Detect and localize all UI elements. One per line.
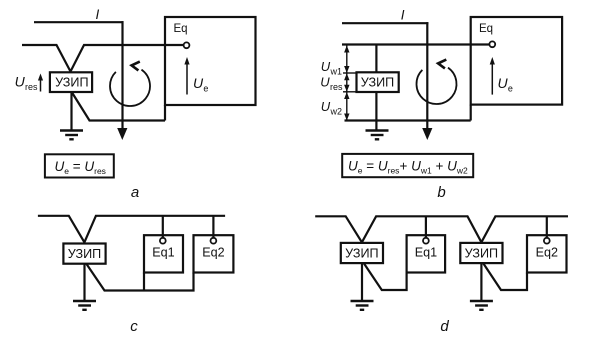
- equipment box Eq2 (c): [194, 235, 234, 272]
- wire: drop to Eq2 terminal (c): [212, 216, 214, 238]
- arrow: U_res voltage arrow (a): [40, 79, 42, 92]
- svg-text:U: U: [193, 75, 204, 91]
- wire: top line conductor (b): [342, 22, 428, 24]
- wire: Eq-box left edge extension to bottom wire (a): [164, 105, 166, 121]
- wire: diagonal bonding lead from SPD (c): [87, 264, 194, 291]
- svg-text:Eq1: Eq1: [415, 246, 437, 260]
- node: terminal circle Eq2 (d): [544, 238, 550, 244]
- formula box a: [45, 154, 114, 177]
- SPD box УЗИП (b): [357, 72, 399, 92]
- node: terminal circle Eq2 (c): [211, 238, 217, 244]
- svg-text:УЗИП: УЗИП: [68, 247, 101, 261]
- ground symbol 1 (d): [351, 301, 374, 310]
- svg-text:w2: w2: [330, 106, 343, 116]
- wire: diagonal bonding lead SPD2-Eq2 (d): [483, 264, 527, 291]
- svg-text:Eq2: Eq2: [536, 246, 558, 260]
- svg-text:Eq: Eq: [174, 23, 188, 35]
- wire: surge current down-conductor (a): [121, 21, 123, 129]
- equipment box Eq1 (c): [144, 235, 183, 272]
- svg-text:U: U: [321, 99, 331, 114]
- wire: drop to Eq1 terminal (d): [425, 216, 427, 238]
- svg-text:a: a: [131, 184, 139, 201]
- svg-text:U: U: [320, 75, 330, 90]
- node: terminal circle on Eq (a): [184, 42, 190, 48]
- equipment box Eq1 (d): [407, 235, 446, 272]
- wire: bottom bonding conductor (b): [345, 119, 471, 121]
- svg-text:c: c: [130, 318, 138, 335]
- svg-text:Eq: Eq: [479, 23, 493, 35]
- wire: drop to Eq1 terminal (c): [162, 216, 164, 238]
- wire: Eq1 left edge extension to bottom wire (c): [143, 273, 145, 291]
- wire: diagonal bonding lead SPD1-Eq1 (d): [364, 264, 407, 291]
- svg-text:УЗИП: УЗИП: [465, 247, 498, 261]
- formula box b: [342, 154, 473, 177]
- svg-text:I: I: [96, 7, 100, 22]
- arrowhead: surge current I direction (a): [117, 128, 127, 140]
- wire: Eq-box left edge extension (b): [470, 105, 472, 121]
- wire: SPD earth lead (c): [83, 264, 85, 301]
- wire: SPD earth lead (a): [70, 92, 72, 131]
- wire: line conductor with V kink (c): [38, 216, 225, 243]
- equipment box Eq (a): [165, 17, 256, 105]
- wire: diagonal bonding lead from SPD to bottom wire (a): [72, 93, 165, 121]
- node: terminal circle on Eq (b): [489, 41, 495, 47]
- svg-text:Eq2: Eq2: [202, 246, 224, 260]
- SPD box УЗИП (a): [50, 72, 92, 92]
- ground symbol 2 (d): [470, 301, 493, 310]
- svg-text:Ue = Ures+ Uw1 + Uw2: Ue = Ures+ Uw1 + Uw2: [348, 159, 468, 176]
- arrow: U_e voltage arrow (b): [491, 63, 493, 95]
- ground symbol (c): [73, 301, 96, 310]
- svg-text:УЗИП: УЗИП: [345, 247, 378, 261]
- svg-text:res: res: [25, 82, 38, 92]
- dimension line with arrows U_w1 / U_res / U_w2 (b): [343, 46, 357, 121]
- svg-text:w1: w1: [330, 66, 343, 76]
- wire: phase conductor (b): [342, 43, 489, 45]
- svg-text:e: e: [203, 84, 208, 94]
- wire: surge current down-conductor (b): [426, 22, 428, 129]
- wire: line conductor with two V kinks (d): [315, 216, 568, 242]
- wire: drop to Eq2 terminal (d): [546, 216, 548, 238]
- SPD box УЗИП 2 (d): [460, 243, 502, 263]
- svg-text:d: d: [440, 318, 449, 335]
- wire: SPD2 earth lead (d): [480, 264, 482, 302]
- svg-text:I: I: [401, 8, 405, 23]
- wire: SPD1 earth lead (d): [361, 264, 363, 302]
- arrow: U_e voltage arrow (a): [186, 63, 188, 95]
- svg-text:УЗИП: УЗИП: [361, 76, 394, 90]
- svg-text:e: e: [508, 84, 513, 94]
- node: terminal circle Eq1 (c): [160, 238, 166, 244]
- wire: phase conductor with V kink to SPD (a): [22, 45, 184, 72]
- equipment box Eq (b): [471, 17, 562, 105]
- arrowhead: surge current I direction (b): [422, 128, 432, 140]
- svg-text:b: b: [437, 184, 445, 201]
- ground symbol (a): [60, 131, 83, 140]
- ground symbol (b): [366, 131, 389, 140]
- svg-text:Eq1: Eq1: [152, 246, 174, 260]
- induced loop arrow (b): [417, 68, 457, 104]
- svg-text:U: U: [321, 59, 331, 74]
- svg-text:U: U: [498, 75, 509, 91]
- wire: top line conductor (a): [34, 21, 124, 23]
- equipment box Eq2 (d): [527, 235, 567, 272]
- SPD box УЗИП (c): [63, 244, 105, 264]
- wire: SPD upper connecting lead (b): [375, 45, 377, 73]
- svg-text:УЗИП: УЗИП: [55, 76, 88, 90]
- svg-text:res: res: [330, 82, 343, 92]
- svg-text:U: U: [15, 74, 26, 90]
- induced loop arrow (a): [110, 70, 150, 106]
- wire: SPD earth lead (b): [375, 92, 377, 131]
- SPD box УЗИП 1 (d): [341, 243, 383, 263]
- node: terminal circle Eq1 (d): [423, 238, 429, 244]
